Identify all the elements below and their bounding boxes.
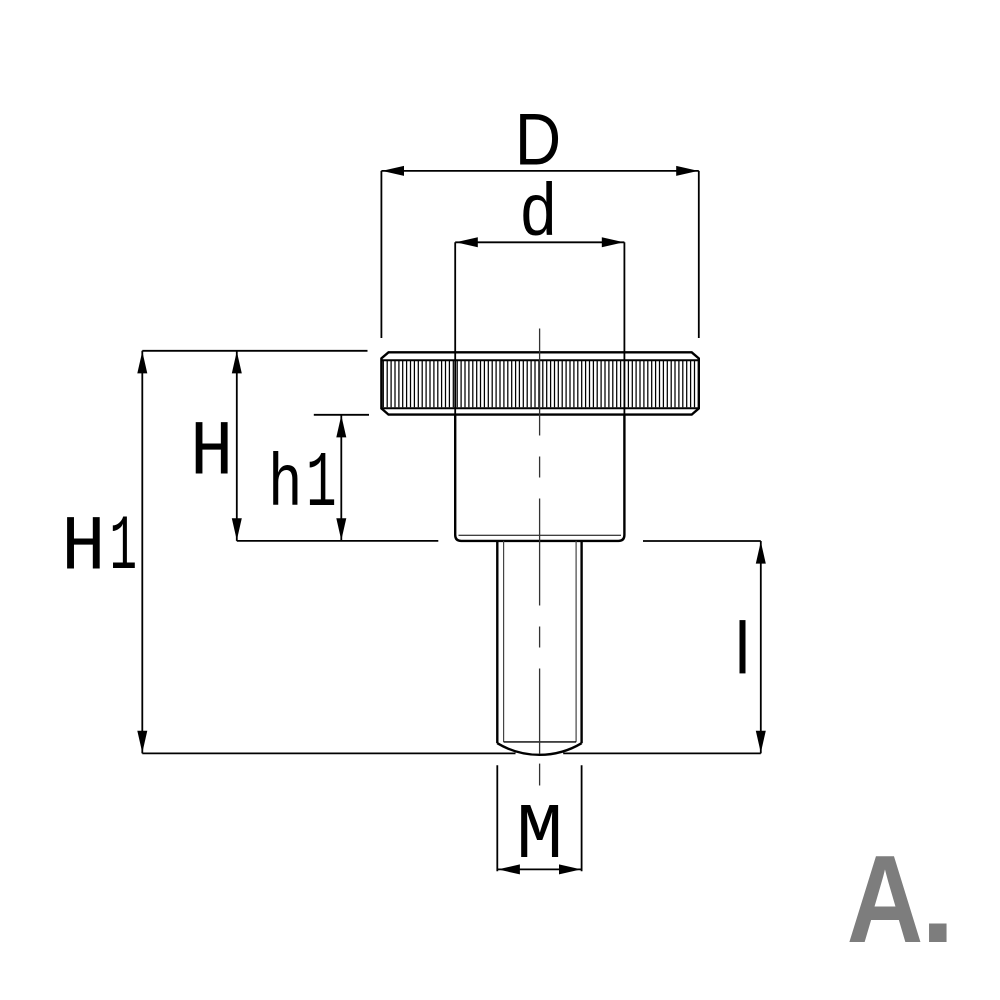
svg-text:1: 1 xyxy=(306,440,337,529)
svg-text:1: 1 xyxy=(110,504,138,592)
svg-text:H: H xyxy=(190,409,233,497)
svg-text:.: . xyxy=(921,831,955,969)
svg-text:M: M xyxy=(516,791,563,880)
svg-text:h: h xyxy=(268,444,303,528)
svg-text:d: d xyxy=(521,168,557,252)
svg-text:H: H xyxy=(61,504,105,592)
svg-text:A: A xyxy=(847,831,923,969)
